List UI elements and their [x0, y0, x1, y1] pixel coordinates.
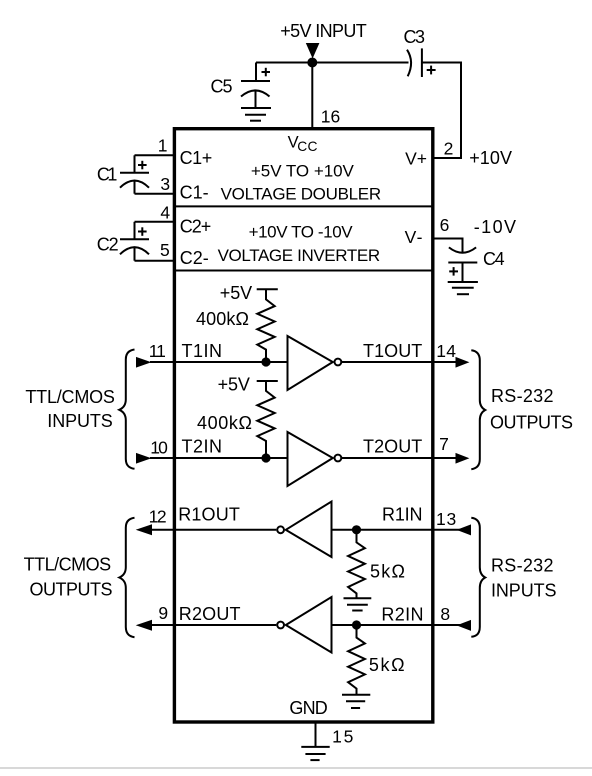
- svg-text:C1-: C1-: [180, 183, 209, 203]
- svg-text:+5V TO +10V: +5V TO +10V: [251, 162, 355, 181]
- svg-text:5kΩ: 5kΩ: [370, 562, 405, 582]
- receiver R2: [286, 597, 332, 653]
- arrow R1IN: [457, 524, 471, 535]
- svg-text:T1OUT: T1OUT: [363, 341, 422, 361]
- ground C4: [448, 282, 478, 294]
- svg-text:C1+: C1+: [180, 148, 213, 168]
- svg-text:R2IN: R2IN: [381, 605, 423, 625]
- ground 5k R1: [344, 598, 372, 610]
- svg-text:V-: V-: [405, 227, 423, 247]
- wire T1OUT: [341, 361, 456, 363]
- svg-text:T2OUT: T2OUT: [363, 436, 422, 456]
- junction dot T1: [261, 357, 270, 366]
- pin 4 stub: [135, 221, 175, 223]
- svg-text:INPUTS: INPUTS: [491, 581, 557, 601]
- junction dot R1: [352, 525, 361, 534]
- svg-text:TTL/CMOS: TTL/CMOS: [25, 387, 115, 407]
- pin 5 stub: [135, 260, 175, 262]
- capacitor C5: [241, 63, 270, 109]
- pin 6 stub: [433, 239, 463, 253]
- arrow T2IN: [136, 453, 151, 464]
- svg-text:C2-: C2-: [180, 248, 209, 268]
- junction dot T2: [261, 453, 270, 462]
- svg-text:R1OUT: R1OUT: [178, 505, 240, 525]
- capacitor C2: [120, 222, 149, 261]
- resistor 5k R1: [348, 530, 365, 598]
- svg-text:8: 8: [440, 604, 450, 624]
- svg-text:15: 15: [332, 726, 353, 746]
- svg-text:T1IN: T1IN: [182, 341, 223, 361]
- resistor 400k T1: [257, 290, 274, 363]
- svg-text:+10V TO -10V: +10V TO -10V: [249, 223, 354, 242]
- brace RS-232 OUTPUTS: [471, 350, 485, 469]
- svg-text:400kΩ: 400kΩ: [196, 309, 249, 329]
- receiver R2 bubble: [277, 622, 284, 629]
- svg-text:+5V: +5V: [220, 283, 252, 303]
- pin 3 stub: [135, 193, 175, 195]
- bottom separator line: [0, 767, 592, 769]
- arrow T1IN: [136, 357, 151, 368]
- svg-text:OUTPUTS: OUTPUTS: [30, 580, 113, 600]
- ground pin 15: [301, 747, 329, 760]
- svg-text:RS-232: RS-232: [491, 386, 554, 406]
- svg-text:3: 3: [160, 174, 170, 194]
- brace TTL/CMOS INPUTS: [119, 350, 134, 469]
- brace TTL/CMOS OUTPUTS: [119, 518, 134, 638]
- arrow R2OUT: [136, 620, 152, 631]
- resistor 5k R2: [348, 625, 365, 695]
- node dot +5V: [307, 58, 317, 68]
- ground 5k R2: [342, 695, 370, 708]
- resistor 400k T2: [257, 381, 274, 458]
- +5V input arrow: [306, 43, 320, 59]
- svg-text:OUTPUTS: OUTPUTS: [490, 413, 573, 433]
- svg-text:9: 9: [158, 603, 168, 623]
- inverter T2 bubble: [335, 455, 342, 462]
- wire T2OUT: [341, 457, 456, 459]
- svg-text:13: 13: [436, 509, 456, 529]
- brace RS-232 INPUTS: [471, 518, 485, 637]
- svg-text:GND: GND: [289, 698, 327, 718]
- wire C3 right plate to V+ pin 2: [422, 63, 461, 159]
- arrow T1OUT: [456, 357, 470, 368]
- svg-text:5kΩ: 5kΩ: [369, 655, 405, 675]
- svg-text:C5: C5: [211, 77, 233, 97]
- svg-text:+5V INPUT: +5V INPUT: [280, 21, 367, 41]
- svg-text:14: 14: [436, 341, 456, 361]
- svg-text:C2: C2: [97, 234, 119, 254]
- svg-text:R2OUT: R2OUT: [179, 604, 241, 624]
- svg-text:11: 11: [149, 341, 166, 361]
- svg-text:7: 7: [439, 434, 449, 454]
- svg-text:C2+: C2+: [180, 217, 212, 237]
- svg-text:TTL/CMOS: TTL/CMOS: [24, 555, 112, 575]
- svg-text:16: 16: [321, 107, 341, 127]
- pin 1 stub: [135, 154, 175, 156]
- svg-text:+5V: +5V: [218, 375, 250, 395]
- svg-text:V+: V+: [405, 149, 427, 169]
- svg-text:4: 4: [160, 202, 170, 222]
- wire R1IN: [332, 529, 472, 531]
- svg-text:C1: C1: [97, 164, 118, 184]
- svg-text:RS-232: RS-232: [491, 556, 554, 576]
- svg-text:T2IN: T2IN: [182, 437, 223, 457]
- pin 15 wire: [315, 722, 317, 747]
- svg-text:R1IN: R1IN: [382, 505, 423, 525]
- svg-text:2: 2: [444, 138, 454, 158]
- inverter T1 bubble: [335, 359, 342, 366]
- svg-text:CC: CC: [297, 139, 317, 154]
- capacitor C3: [407, 48, 436, 77]
- arrow R2IN: [457, 620, 471, 631]
- svg-text:+10V: +10V: [469, 148, 512, 168]
- resistor 400k T2 top bar: [257, 380, 278, 382]
- receiver R1 bubble: [277, 526, 284, 533]
- wire T1IN: [150, 361, 288, 363]
- svg-text:C4: C4: [483, 249, 505, 269]
- divider line 1: [174, 205, 432, 207]
- capacitor C4: [448, 247, 477, 282]
- inverter T1: [288, 336, 333, 390]
- ground C5: [241, 108, 271, 121]
- svg-text:12: 12: [149, 507, 167, 527]
- divider line 2: [174, 270, 432, 272]
- IC box U1: [174, 129, 432, 722]
- svg-text:INPUTS: INPUTS: [47, 411, 113, 431]
- wire top horizontal: [256, 62, 409, 64]
- wire T2IN: [150, 457, 288, 459]
- svg-text:VOLTAGE DOUBLER: VOLTAGE DOUBLER: [221, 185, 382, 204]
- svg-text:6: 6: [440, 215, 450, 235]
- wire R1OUT: [152, 529, 276, 531]
- arrow T2OUT: [456, 453, 470, 464]
- svg-text:10: 10: [150, 437, 168, 457]
- svg-text:1: 1: [158, 135, 168, 155]
- receiver R1: [286, 502, 332, 558]
- inverter T2: [288, 432, 333, 486]
- wire node to pin 16: [311, 63, 313, 129]
- capacitor C1: [120, 155, 149, 193]
- wire R2IN: [332, 624, 472, 626]
- junction dot R2: [352, 620, 361, 629]
- svg-text:5: 5: [160, 240, 170, 260]
- svg-text:C3: C3: [404, 27, 426, 47]
- svg-text:400kΩ: 400kΩ: [197, 413, 252, 433]
- svg-text:VOLTAGE INVERTER: VOLTAGE INVERTER: [218, 246, 381, 265]
- arrow R1OUT: [136, 524, 152, 535]
- wire R2OUT: [152, 624, 276, 626]
- resistor 400k T1 top bar: [257, 288, 278, 290]
